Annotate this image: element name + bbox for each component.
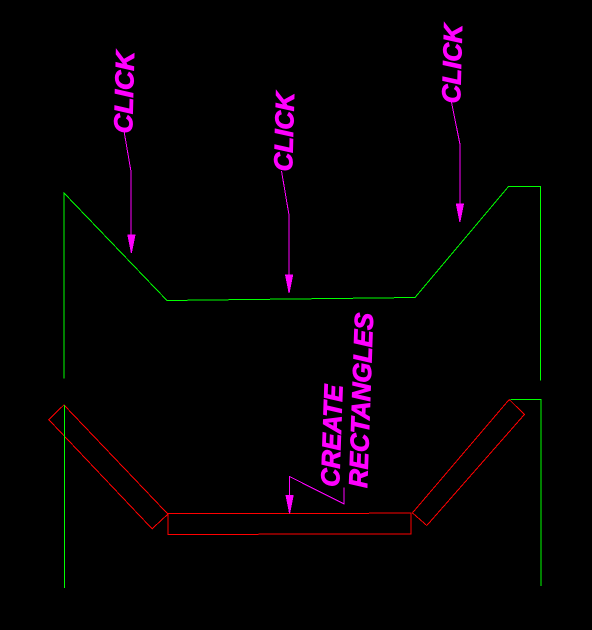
svg-text:RECTANGLES: RECTANGLES (343, 312, 379, 489)
svg-text:CLICK: CLICK (108, 49, 140, 134)
svg-text:CLICK: CLICK (268, 90, 300, 172)
svg-text:CLICK: CLICK (436, 22, 468, 104)
